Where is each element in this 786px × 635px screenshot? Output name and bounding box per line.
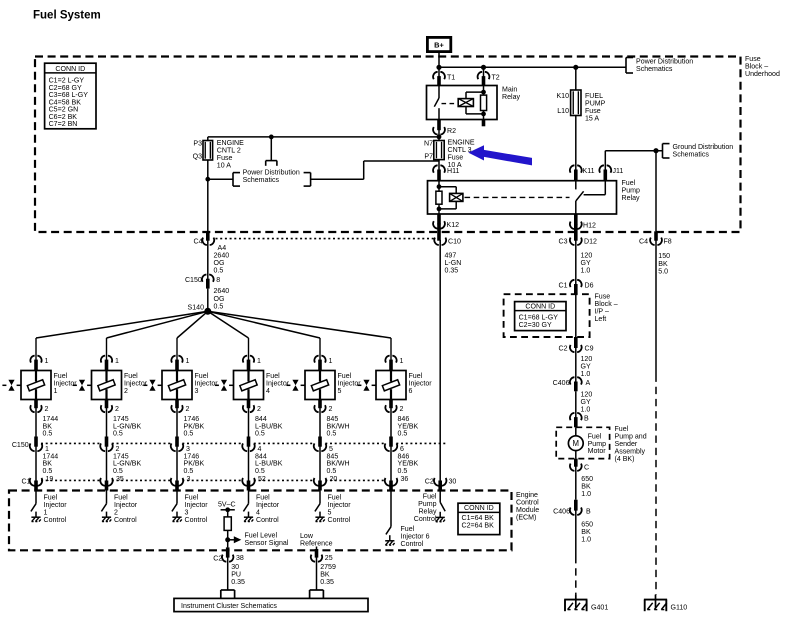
- svg-text:19: 19: [46, 476, 54, 483]
- connector C2 pin 25: [311, 549, 333, 562]
- connector C1 pin 36: [385, 476, 409, 491]
- svg-text:C10: C10: [448, 238, 461, 245]
- svg-text:Control: Control: [44, 517, 67, 524]
- label Fuel Injector 3: [195, 373, 219, 395]
- fuel injector 5: [305, 371, 335, 400]
- svg-text:1.0: 1.0: [581, 268, 591, 275]
- svg-text:0.5: 0.5: [255, 431, 265, 438]
- svg-text:C1=68 L-GY: C1=68 L-GY: [519, 314, 559, 321]
- connector C1 pin 52: [242, 476, 266, 491]
- wire 120 GY 1.0 (C9 to C406): [576, 347, 593, 382]
- injector 1 valve pintle symbol: [2, 380, 20, 391]
- svg-text:0.5: 0.5: [184, 468, 194, 475]
- svg-text:Q3: Q3: [193, 153, 202, 160]
- wire S140 fan to injector 5: [208, 311, 320, 360]
- label ENGINE CNTL 2 Fuse 10 A: [217, 140, 244, 170]
- svg-text:Schematics: Schematics: [243, 177, 280, 184]
- connector pin 1 of injector 4: [243, 356, 261, 371]
- svg-text:Block –: Block –: [595, 301, 618, 308]
- svg-text:BK: BK: [320, 571, 330, 578]
- fuse block underhood dashed boundary: [35, 57, 741, 233]
- main relay resistor: [481, 86, 487, 120]
- connector C150 pin 2: [100, 443, 119, 453]
- svg-text:GY: GY: [581, 363, 591, 370]
- wire S140 fan to injector 2: [107, 311, 208, 360]
- svg-text:Fuel: Fuel: [195, 373, 209, 380]
- svg-text:Instrument Cluster Schematics: Instrument Cluster Schematics: [181, 603, 277, 610]
- main relay coil parallel loop: [466, 90, 485, 116]
- fuel injector 3: [162, 371, 192, 400]
- wire B+ down to main bus: [438, 52, 440, 67]
- connector C10: [434, 238, 461, 246]
- svg-text:R2: R2: [447, 128, 456, 135]
- svg-text:0.35: 0.35: [231, 579, 245, 586]
- fuel injector 3 control driver: [172, 491, 182, 522]
- svg-text:K10: K10: [556, 93, 569, 100]
- injector 2 valve pintle symbol: [73, 380, 91, 391]
- svg-text:C7=2 BN: C7=2 BN: [49, 121, 78, 128]
- svg-text:Pump: Pump: [622, 188, 640, 195]
- connector pin 1 of injector 3: [171, 356, 189, 371]
- svg-text:Control: Control: [185, 517, 208, 524]
- label C150 connector row: [12, 442, 29, 449]
- connector C1 pin 35: [100, 476, 124, 491]
- svg-text:150: 150: [658, 253, 670, 260]
- svg-text:C3=68 L-GY: C3=68 L-GY: [49, 92, 89, 99]
- svg-text:4: 4: [258, 446, 262, 453]
- wire down from bus to P3 fuse: [207, 137, 209, 141]
- CONN ID table IP fuse block: [515, 302, 566, 331]
- svg-text:1: 1: [400, 358, 404, 365]
- svg-text:K12: K12: [447, 222, 460, 229]
- label Fuel Injector 5 Control: [328, 495, 352, 524]
- connector C1/D6 (IP fuse block): [558, 278, 593, 294]
- svg-text:Motor: Motor: [588, 448, 607, 455]
- svg-text:846: 846: [398, 416, 410, 423]
- instrument cluster schematics box: [174, 598, 368, 611]
- svg-text:0.5: 0.5: [113, 431, 123, 438]
- svg-text:0.5: 0.5: [327, 468, 337, 475]
- svg-text:C5=2 GN: C5=2 GN: [49, 107, 79, 114]
- connector pin 2 of injector 1: [30, 400, 48, 414]
- title: Fuel System: [33, 10, 101, 22]
- svg-text:Pump: Pump: [588, 441, 606, 448]
- bracket Ground Distribution Schematics: [663, 144, 734, 159]
- svg-text:BK: BK: [43, 461, 53, 468]
- svg-text:PK/BK: PK/BK: [184, 423, 205, 430]
- svg-text:1: 1: [44, 510, 48, 517]
- svg-text:C4: C4: [639, 239, 648, 246]
- wire 846 YE/BK 0.5 (C150 to C1): [391, 446, 419, 481]
- svg-text:0.5: 0.5: [327, 431, 337, 438]
- wire right bracket to P7 fuse output: [311, 161, 439, 179]
- svg-text:CNTL 2: CNTL 2: [217, 148, 241, 155]
- fuel injector 6: [376, 371, 406, 400]
- svg-text:2: 2: [400, 406, 404, 413]
- fuel pump relay coil: [450, 193, 463, 201]
- fuse block IP dashed boundary: [504, 294, 590, 337]
- wire 1745 L-GN/BK 0.5 (C150 to C1): [107, 446, 142, 481]
- svg-text:F8: F8: [664, 239, 672, 246]
- connector terminal H11: [433, 165, 459, 180]
- svg-text:A: A: [586, 380, 591, 387]
- wire tap to power distribution bracket: [208, 178, 233, 180]
- svg-text:1: 1: [186, 358, 190, 365]
- svg-text:1: 1: [115, 358, 119, 365]
- svg-text:C2: C2: [213, 556, 222, 563]
- svg-text:P7: P7: [424, 153, 433, 160]
- svg-text:Fuel: Fuel: [328, 495, 342, 502]
- engine control module dashed boundary: [9, 491, 512, 551]
- dotted line C1 row: [41, 479, 386, 481]
- svg-text:Fuel: Fuel: [409, 373, 423, 380]
- label Fuse Block - I/P - Left: [595, 294, 618, 324]
- svg-text:5V–C: 5V–C: [218, 501, 236, 508]
- wire 1746 PK/BK 0.5 (C150 to C1): [177, 446, 205, 481]
- wire 650 BK 1.0 (C to C406): [576, 466, 593, 500]
- svg-text:1746: 1746: [184, 416, 200, 423]
- junction T2: [481, 65, 485, 69]
- svg-text:PUMP: PUMP: [585, 100, 606, 107]
- bracket to Power Distribution Schematics (top right): [626, 58, 693, 74]
- svg-text:0.35: 0.35: [445, 268, 459, 275]
- svg-text:Injector: Injector: [409, 381, 433, 388]
- svg-text:Relay: Relay: [502, 94, 520, 101]
- svg-text:C406: C406: [553, 380, 570, 387]
- label Fuel Injector 1: [54, 373, 78, 395]
- label Fuse Block - Underhood: [745, 56, 780, 78]
- svg-text:6: 6: [400, 446, 404, 453]
- svg-text:8: 8: [216, 277, 220, 284]
- svg-text:ENGINE: ENGINE: [448, 139, 475, 146]
- svg-text:1746: 1746: [184, 453, 200, 460]
- svg-text:844: 844: [255, 453, 267, 460]
- svg-text:Injector: Injector: [114, 502, 138, 509]
- svg-text:Fuel: Fuel: [622, 180, 636, 187]
- connector C1 pin 19: [30, 476, 54, 491]
- svg-text:Fuel: Fuel: [185, 495, 199, 502]
- connector pin 1 of injector 2: [101, 356, 119, 371]
- svg-text:Power Distribution: Power Distribution: [636, 58, 693, 65]
- svg-text:CONN ID: CONN ID: [525, 304, 555, 311]
- pin N7: [424, 140, 433, 147]
- wire through IP fuse block: [575, 294, 577, 337]
- svg-text:Injector: Injector: [256, 502, 280, 509]
- svg-text:B+: B+: [434, 41, 444, 50]
- wire 846 YE/BK 0.5 (injector 6 to C150): [391, 407, 419, 446]
- svg-text:BK/WH: BK/WH: [327, 423, 350, 430]
- svg-text:5.0: 5.0: [658, 268, 668, 275]
- wire 150 BK 5.0: [656, 240, 670, 595]
- wire ground junction down to C4/F8: [655, 151, 657, 232]
- svg-text:Injector: Injector: [328, 502, 352, 509]
- svg-text:2: 2: [115, 406, 119, 413]
- svg-text:5: 5: [329, 446, 333, 453]
- svg-text:Fuse: Fuse: [745, 56, 761, 63]
- svg-text:1: 1: [45, 446, 49, 453]
- wire 30 PU 0.35: [228, 557, 245, 590]
- label Fuel Injector 5: [338, 373, 362, 395]
- svg-text:Fuel: Fuel: [338, 373, 352, 380]
- label FUEL PUMP Fuse 15 A: [585, 93, 606, 123]
- label Engine Control Module (ECM): [516, 492, 539, 522]
- svg-text:L-BU/BK: L-BU/BK: [255, 461, 283, 468]
- svg-text:1: 1: [329, 358, 333, 365]
- svg-text:L10: L10: [557, 108, 569, 115]
- svg-text:Left: Left: [595, 316, 607, 323]
- svg-text:Injector: Injector: [124, 381, 148, 388]
- svg-text:Injector 6: Injector 6: [401, 533, 430, 540]
- svg-text:C4: C4: [193, 238, 202, 245]
- label Fuel Pump Motor: [588, 433, 607, 455]
- connector pin 2 of injector 2: [101, 400, 119, 414]
- svg-text:2: 2: [124, 388, 128, 395]
- injector 4 valve pintle symbol: [215, 380, 233, 391]
- svg-text:C2=64 BK: C2=64 BK: [462, 523, 495, 530]
- svg-text:YE/BK: YE/BK: [398, 423, 419, 430]
- label Fuel Injector 3 Control: [185, 495, 209, 524]
- label Fuel Injector 4 Control: [256, 495, 280, 524]
- fuel pump relay coil loop: [439, 187, 456, 209]
- wire 1746 PK/BK 0.5 (injector 3 to C150): [177, 407, 205, 446]
- main relay linkage dashes: [442, 103, 457, 105]
- svg-text:20: 20: [330, 476, 338, 483]
- wire 120 GY 1.0 (C3 to C1): [576, 240, 593, 278]
- label Fuel Pump Relay Control: [414, 494, 437, 523]
- svg-text:BK: BK: [581, 529, 591, 536]
- svg-text:Reference: Reference: [300, 541, 333, 548]
- svg-text:4: 4: [256, 510, 260, 517]
- svg-text:0.5: 0.5: [214, 303, 224, 310]
- injector 5 valve pintle symbol: [286, 380, 304, 391]
- svg-text:497: 497: [445, 252, 457, 259]
- svg-text:YE/BK: YE/BK: [398, 461, 419, 468]
- svg-text:Fuel: Fuel: [256, 495, 270, 502]
- svg-text:C150: C150: [12, 442, 29, 449]
- wire 1744 BK 0.5 (injector 1 to C150): [36, 407, 58, 446]
- svg-text:2759: 2759: [320, 564, 336, 571]
- fuel pump relay switch: [576, 181, 584, 214]
- svg-text:4: 4: [266, 388, 270, 395]
- fork to power distribution text: [266, 161, 277, 166]
- injector 3 valve pintle symbol: [143, 380, 161, 391]
- fuel injector 6 control driver: [385, 491, 394, 546]
- svg-text:ENGINE: ENGINE: [217, 140, 244, 147]
- wire R2 to fuse: [438, 130, 440, 141]
- junction fuel pump fuse feed: [574, 65, 578, 69]
- svg-text:Fuse: Fuse: [217, 155, 233, 162]
- svg-text:Schematics: Schematics: [673, 151, 710, 158]
- svg-text:5: 5: [338, 388, 342, 395]
- svg-text:1745: 1745: [113, 453, 129, 460]
- svg-text:2: 2: [186, 406, 190, 413]
- svg-text:Engine: Engine: [516, 492, 538, 499]
- svg-text:0.5: 0.5: [398, 468, 408, 475]
- svg-text:3: 3: [185, 510, 189, 517]
- svg-text:Control: Control: [401, 541, 424, 548]
- svg-text:1.0: 1.0: [581, 491, 591, 498]
- fuse ENGINE CNTL 3 (N7/P7): [434, 141, 444, 160]
- fuse ENGINE CNTL 2 (P3/Q3): [203, 141, 213, 161]
- main relay coil: [458, 99, 473, 107]
- svg-text:Fuel System: Fuel System: [33, 10, 101, 22]
- connector pin 2 of injector 6: [385, 400, 403, 414]
- wire 844 L-BU/BK 0.5 (injector 4 to C150): [249, 407, 283, 446]
- connector pin B (fuel pump): [570, 413, 589, 427]
- svg-text:Sender: Sender: [615, 441, 638, 448]
- connector terminal H12: [570, 214, 596, 229]
- svg-text:Module: Module: [516, 507, 539, 514]
- svg-text:Fuse: Fuse: [585, 108, 601, 115]
- dotted connector line C4 to C10: [216, 238, 435, 240]
- node fuel level signal tap with wiper arrow: [226, 536, 242, 543]
- connector pin 2 of injector 3: [171, 400, 189, 414]
- svg-text:1744: 1744: [43, 416, 59, 423]
- svg-text:846: 846: [398, 453, 410, 460]
- svg-text:B: B: [586, 508, 591, 515]
- svg-text:2: 2: [114, 510, 118, 517]
- label Fuel Injector 2 Control: [114, 495, 138, 524]
- svg-text:C406: C406: [553, 508, 570, 515]
- main bus wire to power distribution: [439, 66, 626, 68]
- svg-text:2: 2: [257, 406, 261, 413]
- node ground distribution junction: [654, 149, 658, 153]
- pin K10: [556, 93, 569, 100]
- wire fuse to H11: [438, 160, 440, 171]
- svg-text:0.5: 0.5: [184, 431, 194, 438]
- svg-text:52: 52: [258, 476, 266, 483]
- svg-text:A4: A4: [218, 245, 227, 252]
- svg-text:Fuel: Fuel: [266, 373, 280, 380]
- terminal staple to instrument cluster (left): [221, 590, 235, 598]
- label C1 connector row: [21, 478, 30, 485]
- svg-text:C1: C1: [558, 282, 567, 289]
- connector C2/C9: [558, 337, 593, 353]
- svg-text:Assembly: Assembly: [615, 449, 646, 456]
- wire S140 fan to injector 4: [208, 311, 249, 360]
- svg-text:2: 2: [116, 446, 120, 453]
- svg-text:C2=68 GY: C2=68 GY: [49, 85, 82, 92]
- svg-text:3: 3: [195, 388, 199, 395]
- svg-text:D6: D6: [585, 282, 594, 289]
- connector C150 pin 6: [385, 443, 404, 453]
- svg-text:Injector: Injector: [338, 381, 362, 388]
- svg-text:0.5: 0.5: [214, 268, 224, 275]
- svg-text:Injector: Injector: [195, 381, 219, 388]
- svg-text:Fuel: Fuel: [44, 495, 58, 502]
- label Fuel Level Sensor Signal: [245, 533, 289, 548]
- svg-text:30: 30: [449, 478, 457, 485]
- svg-text:M: M: [573, 439, 580, 448]
- svg-text:3: 3: [186, 446, 190, 453]
- wire S140 fan to injector 3: [177, 311, 208, 360]
- connector C406 pin A: [553, 377, 591, 391]
- svg-text:Power Distribution: Power Distribution: [243, 169, 300, 176]
- junction T1: [437, 65, 441, 69]
- svg-text:CONN ID: CONN ID: [55, 66, 85, 73]
- svg-text:P3: P3: [193, 140, 202, 147]
- svg-text:Fuel: Fuel: [588, 433, 602, 440]
- connector terminal T1: [433, 72, 455, 86]
- fuel pump relay control driver: [436, 491, 446, 522]
- svg-text:C1=64 BK: C1=64 BK: [462, 515, 495, 522]
- wire 845 BK/WH 0.5 (C150 to C1): [320, 446, 350, 481]
- svg-text:120: 120: [581, 252, 593, 259]
- pin P7: [424, 153, 433, 160]
- svg-text:G110: G110: [671, 604, 688, 611]
- svg-text:0.5: 0.5: [113, 468, 123, 475]
- connector terminal T2: [478, 72, 500, 86]
- wire 650 BK 1.0 (C406 to G401): [576, 510, 593, 595]
- callout blue arrow: [468, 145, 532, 165]
- svg-text:GY: GY: [581, 399, 591, 406]
- wire Q3 fuse output down: [207, 160, 209, 231]
- svg-text:I/P –: I/P –: [595, 309, 609, 316]
- svg-text:L-GN: L-GN: [445, 260, 462, 267]
- svg-text:0.35: 0.35: [320, 579, 334, 586]
- wire 1744 BK 0.5 (C150 to C1): [36, 446, 58, 481]
- svg-text:C6=2 BK: C6=2 BK: [49, 114, 78, 121]
- svg-text:Fuse: Fuse: [448, 155, 464, 162]
- wire 2640 OG 0.5 (C150 to S140): [208, 288, 229, 311]
- ground G110: [644, 595, 687, 612]
- svg-text:36: 36: [401, 476, 409, 483]
- label Fuel Injector 2: [124, 373, 148, 395]
- svg-text:5: 5: [328, 510, 332, 517]
- fuel injector 2: [92, 371, 122, 400]
- svg-text:N7: N7: [424, 140, 433, 147]
- connector C150 pin 1: [30, 443, 49, 453]
- svg-text:L-BU/BK: L-BU/BK: [255, 423, 283, 430]
- svg-text:1.0: 1.0: [581, 371, 591, 378]
- pin L10: [557, 108, 569, 115]
- connector pin 1 of injector 6: [385, 356, 403, 371]
- wire low reference drop: [316, 547, 318, 550]
- node fork tap on fuse bus: [269, 135, 273, 139]
- connector terminal R2: [433, 120, 456, 135]
- label Fuel Injector 1 Control: [44, 495, 68, 524]
- svg-text:Injector: Injector: [185, 502, 209, 509]
- svg-text:Control: Control: [414, 516, 437, 523]
- wire K12 to C10: [437, 224, 441, 241]
- svg-text:Control: Control: [114, 517, 137, 524]
- connector C1 pin 20: [314, 476, 338, 491]
- svg-text:Control: Control: [516, 499, 539, 506]
- connector terminal K11: [570, 165, 595, 180]
- label ENGINE CNTL 3 Fuse 10 A: [448, 139, 475, 169]
- svg-text:T2: T2: [492, 75, 500, 82]
- svg-text:FUEL: FUEL: [585, 93, 603, 100]
- connector pin 2 of injector 4: [243, 400, 261, 414]
- label Fuel Pump and Sender Assembly (4 BK): [615, 426, 647, 463]
- svg-text:GY: GY: [581, 260, 591, 267]
- wire 2640 OG 0.5 (A4 to C150): [208, 240, 229, 280]
- fuel injector 4: [234, 371, 264, 400]
- fuse FUEL PUMP (K10/L10): [571, 90, 581, 116]
- svg-text:650: 650: [581, 476, 593, 483]
- svg-text:C2: C2: [558, 346, 567, 353]
- svg-text:Injector: Injector: [44, 502, 68, 509]
- fuel pump motor M: [568, 427, 583, 458]
- wire bus to engine cntl 2 fuse: [208, 136, 439, 138]
- wire J11 riser and ground distribution feed: [605, 151, 662, 171]
- svg-text:25: 25: [325, 555, 333, 562]
- connector C150 pin 3: [171, 443, 190, 453]
- ground G401: [564, 595, 608, 612]
- svg-text:120: 120: [581, 356, 593, 363]
- svg-text:Injector: Injector: [266, 381, 290, 388]
- svg-text:C1=2 L-GY: C1=2 L-GY: [49, 78, 85, 85]
